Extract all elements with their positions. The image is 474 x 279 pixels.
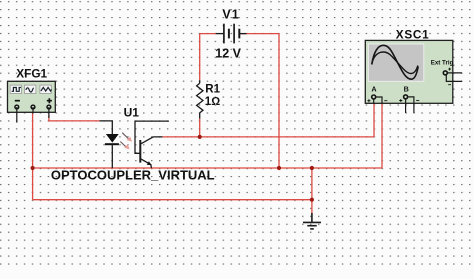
LED light arrow 1 [122,133,132,142]
phototransistor collector [141,137,163,144]
XSC1 screen [368,44,423,81]
junction battery minus / ground net [277,166,281,170]
resistor R1 [197,80,203,118]
channel A minus mark [384,100,387,102]
svg-text:1Ω: 1Ω [205,96,220,108]
XFG1 common terminal pin [32,107,34,114]
svg-text:U1: U1 [124,105,140,119]
junction ground branch top [310,166,314,170]
XSC1 waveform big [372,45,418,79]
junction ground branch bottom [310,198,314,202]
XSC1 channel A terminal [372,95,376,99]
XFG1 minus sign [15,100,20,102]
XFG1 sine button [25,85,36,93]
svg-text:B: B [404,84,409,93]
XSC1 channel B terminal [404,95,408,99]
XFG1 minus terminal pin [16,107,18,123]
LED triangle [106,134,119,143]
phototransistor base bar [139,140,141,163]
oscilloscope XSC1 [365,40,462,113]
wire R1 top vertical [199,34,201,81]
svg-text:OPTOCOUPLER_VIRTUAL: OPTOCOUPLER_VIRTUAL [51,168,215,183]
wire scope A+ vertical [373,103,375,137]
phototransistor emitter [141,159,152,168]
svg-text:A: A [371,84,376,93]
svg-text:R1: R1 [205,84,220,96]
XFG1 plus terminal pin [48,107,50,118]
wire XFG1 common vertical [32,114,34,200]
LED cathode bar [105,143,119,145]
battery V1 [216,24,247,44]
LED light arrow 2 [120,142,129,150]
wire bottom loop horizontal [33,199,312,201]
ext-trig minus mark [448,84,451,86]
XSC1 ext-trig terminal [443,71,447,75]
wire XFG1 plus to LED anode [49,115,100,121]
function generator XFG1 [8,81,56,122]
junction R1/collector node [198,135,202,139]
channel B plus mark [399,99,402,102]
ground [303,213,321,229]
wire ground node horizontal [33,167,382,169]
svg-text:V1: V1 [222,8,239,22]
svg-text:XFG1: XFG1 [16,66,47,80]
wire R1 bottom vertical [199,119,201,137]
wire node-A horizontal collector to scope A [163,136,375,138]
junction XFG common / ground net [30,166,34,170]
channel A plus mark [367,99,370,102]
phototransistor base stub [135,121,169,153]
XSC1 waveform small [372,52,418,74]
wire battery-left to R1 top [200,33,216,35]
emitter arrowhead [147,161,152,165]
LED anode lead [100,121,113,134]
wire scope A- vertical [381,103,383,168]
LED cathode lead [111,145,113,168]
channel B minus mark [416,100,419,102]
svg-text:Ext Trig: Ext Trig [431,59,454,66]
XFG1 square-wave button [10,85,21,93]
wire battery minus vertical x=279 [278,34,280,168]
wire ground-branch vertical [311,168,313,214]
svg-text:12 V: 12 V [215,47,241,61]
XFG1 triangle button [40,85,51,93]
wire battery-right [239,33,279,35]
ext-trig plus mark [448,68,451,71]
XFG1 plus sign [47,98,52,103]
svg-text:XSC1: XSC1 [396,28,430,42]
